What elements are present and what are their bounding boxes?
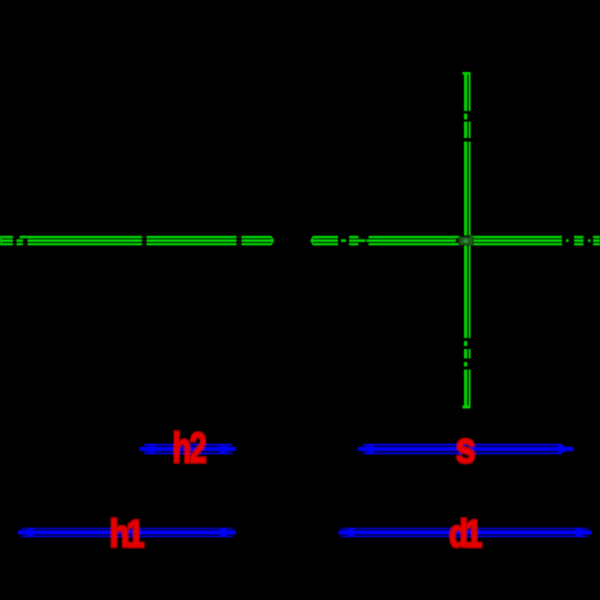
label s (red) bbox=[456, 423, 476, 472]
horizontal centerline left segment (green triple stripe) bbox=[0, 236, 274, 246]
vertical centerline (green double stripe) bbox=[463, 72, 471, 409]
dimension line h1 (blue) bbox=[17, 528, 237, 537]
svg-text:s: s bbox=[456, 423, 476, 472]
svg-text:h1: h1 bbox=[110, 511, 145, 555]
horizontal centerline right segment (green triple stripe) bbox=[310, 236, 600, 246]
svg-text:d1: d1 bbox=[449, 513, 482, 556]
dimension line d1 (blue) bbox=[338, 528, 593, 537]
centerline crossing dim center bbox=[458, 237, 474, 246]
label h1 (red) bbox=[110, 511, 145, 555]
dimension line s (blue) bbox=[357, 444, 575, 454]
svg-text:h2: h2 bbox=[172, 423, 206, 471]
label h2 (red) bbox=[172, 423, 206, 471]
dimension line h2 (blue) bbox=[139, 444, 237, 454]
label d1 (red) bbox=[449, 513, 482, 556]
